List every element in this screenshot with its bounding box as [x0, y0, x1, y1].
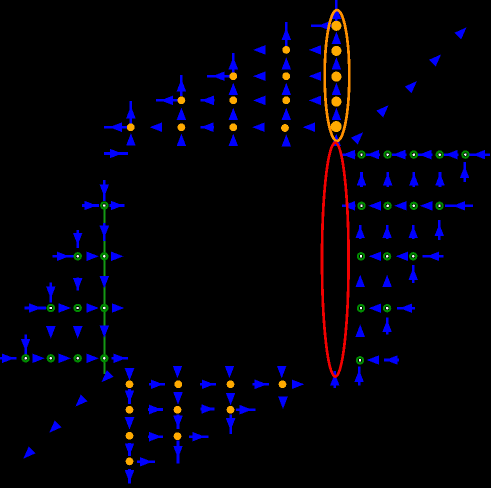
green dot (18,6)	[462, 152, 468, 158]
arrow up col13 between dots 1-2	[332, 32, 342, 44]
arrow right row12 c	[86, 303, 98, 313]
arrow left row3 node12	[309, 71, 321, 81]
arrow NE diag 2	[376, 105, 388, 117]
arrow right row16 a	[148, 405, 163, 415]
arrow NE diag 4	[429, 54, 441, 66]
arrow left row14 a	[367, 355, 379, 365]
arrow right row14 b	[32, 354, 44, 364]
arrow left row8 c	[394, 201, 406, 211]
arrow up row11 b	[382, 275, 392, 287]
green dot (15,8)	[385, 203, 391, 209]
orange dot (11,2)	[282, 46, 290, 54]
green dot (4,10)	[101, 253, 107, 259]
arrow up row7 b	[383, 172, 393, 187]
orange dot (7,16)	[174, 406, 182, 414]
arrow up row13 b long below dot(15,12)	[382, 317, 392, 334]
arrow down col11 below dot(11,15)	[278, 397, 288, 409]
arrow right row16 b	[201, 404, 215, 414]
arrow left row6 c	[392, 150, 406, 160]
arrow up col11 above dot(11,2)	[282, 22, 292, 46]
arrow up row13 a	[355, 325, 365, 337]
arrow left row5 node12	[303, 122, 315, 132]
arrow right row14 e	[112, 354, 128, 364]
arrow right row16 c long	[236, 405, 256, 415]
green dot (14,6)	[358, 152, 364, 158]
arrow up below dot(14,14)	[354, 367, 364, 386]
arrow down col9 between 15-16	[226, 393, 236, 405]
orange dot (11,5)	[281, 124, 289, 132]
arrow left row10 b	[396, 252, 408, 262]
orange dot (11,15)	[279, 380, 287, 388]
orange dot (9,4)	[229, 96, 237, 104]
arrow down col4 above dot(4,8)	[100, 180, 110, 201]
green dot (16,6)	[411, 152, 417, 158]
arrow left row8 b	[369, 201, 381, 211]
arrow left row5 node10	[252, 122, 264, 132]
arrow down col5 between 15-16	[125, 389, 135, 404]
arrow left row6 e	[444, 150, 458, 160]
arrow left row3 left of dot(9,3)	[207, 71, 230, 81]
orange dot (13,5) big	[331, 121, 342, 132]
arrow down col7 between 16-17	[173, 414, 183, 429]
arrow right row10 c	[111, 252, 123, 262]
arrow down col9 above dot(9,15)	[225, 366, 235, 378]
arrow down col4 below dot(4,8)	[100, 223, 110, 241]
arrow down col4 row11	[100, 276, 110, 288]
arrow NE diag 1	[351, 132, 363, 144]
arrow up col9 above dot(9,3)	[229, 53, 239, 73]
arrow left row5 node6	[150, 122, 162, 132]
arrow down col7 between 15-16	[173, 392, 183, 404]
arrow up row9 d long	[435, 220, 445, 240]
arrow down col2 above dot(2,12)	[46, 283, 56, 303]
green dot (3,12)	[75, 305, 81, 311]
arrow up col13 top	[332, 0, 342, 26]
arrow left row4 left of dot(7,4)	[156, 96, 178, 106]
arrow down col1 above dot(1,14)	[21, 334, 31, 355]
arrow left row5 left of dot(5,5)	[104, 122, 127, 132]
arrow down col7 above dot(7,15)	[173, 366, 183, 378]
arrow up col13 between dots 4-5	[332, 108, 342, 120]
green dot (4,8)	[101, 202, 107, 208]
arrow right row8 left of dot(4,8)	[82, 201, 99, 211]
arrow right row17 b long	[189, 432, 209, 442]
arrow right row12 d	[112, 303, 124, 313]
orange dot (11,3)	[282, 72, 290, 80]
orange dot (11,4)	[282, 96, 290, 104]
arrow SW diag 1	[102, 370, 114, 382]
arrow up col7 between dots	[177, 108, 187, 120]
arrow up row9 a	[355, 225, 365, 239]
arrow up col7 above dot(7,4)	[177, 75, 187, 96]
arrow down col4 row13	[100, 325, 110, 337]
arrow left row6 a	[342, 150, 356, 160]
green dot (16,10)	[410, 253, 416, 259]
arrow left row4 node8	[201, 96, 215, 106]
arrow left row8 a	[342, 201, 356, 211]
arrow right row12 b	[59, 303, 71, 313]
arrow up col11 between dots 4-5	[282, 108, 292, 120]
orange dot (5,5)	[127, 123, 135, 131]
orange dot (13,2) big	[331, 46, 341, 56]
arrow right row17 a	[148, 432, 163, 442]
arrow right row15 d	[292, 380, 304, 390]
green dot (15,10)	[384, 253, 390, 259]
arrow right row8 right of dot(4,8)	[109, 201, 124, 211]
green dot (2,14)	[48, 355, 54, 361]
arrow up col5 above dot(5,5)	[126, 101, 136, 124]
arrow down col9 below dot(9,16)	[226, 415, 236, 435]
arrow right row18 a	[137, 457, 155, 467]
arrow up col9 between dots 3-4	[229, 83, 239, 95]
arrow left row6 d	[418, 150, 432, 160]
arrow left row2 left of dot(11,2)	[253, 45, 265, 55]
orange dot (5,17)	[126, 432, 134, 440]
green dot (16,8)	[411, 203, 417, 209]
arrow left row12 a	[369, 303, 381, 313]
green dot (17,8)	[436, 203, 442, 209]
arrow left row6 f edge	[468, 150, 490, 160]
green dot (14,8)	[358, 203, 364, 209]
arrow up row9 b	[382, 225, 392, 239]
arrow left row4 node10	[253, 96, 265, 106]
orange dot (7,17)	[174, 432, 182, 440]
arrow up row7 c	[409, 172, 419, 187]
orange dot (13,1) big	[331, 21, 341, 31]
arrow right row14 c	[59, 354, 71, 364]
arrow left row3 node10	[253, 71, 265, 81]
arrow SW diag 4	[23, 447, 35, 459]
arrow up row9 c	[408, 225, 418, 239]
arrow left row5 node8	[201, 122, 214, 132]
orange dot (5,16)	[126, 406, 134, 414]
orange dot (5,15)	[126, 380, 134, 388]
green dot (17,6)	[437, 152, 443, 158]
arrow up col13 below dot(13,5)	[331, 134, 341, 146]
green dot (14,10)	[358, 253, 364, 259]
arrow left row12 b long	[397, 303, 415, 313]
arrow NE diag 5	[454, 27, 466, 39]
green dot (14,12)	[358, 305, 364, 311]
arrow up col7 below dot(7,5)	[177, 134, 187, 146]
arrow left row2 node12	[309, 45, 321, 55]
arrow left row8 e long	[445, 201, 473, 211]
orange dot (5,18)	[126, 458, 134, 466]
arrow up col9 between dots 4-5	[229, 108, 239, 120]
arrow right row15 c	[253, 380, 269, 390]
arrow down col5 between 16-17	[125, 417, 135, 429]
orange dot (7,15)	[174, 380, 182, 388]
green dot (4,14)	[101, 355, 107, 361]
arrow down col2 row13	[46, 326, 56, 338]
arrow up below red ellipse	[330, 371, 340, 388]
arrow left row1 left of dot(13,1)	[311, 21, 337, 31]
green dot (1,14)	[23, 355, 29, 361]
green dot (15,12)	[384, 305, 390, 311]
orange ellipse highlight around column 13 top	[325, 10, 350, 141]
arrow down col3 row11	[73, 278, 83, 291]
arrow up row7 a	[357, 172, 367, 187]
arrow down col3 above dot(3,10)	[73, 230, 83, 248]
green dot (15,6)	[385, 152, 391, 158]
arrow down col3 row13	[73, 326, 83, 338]
arrow up row11 c long below dot(16,10)	[408, 265, 418, 283]
orange dot (9,16)	[227, 406, 235, 414]
orange dot (7,4)	[178, 96, 186, 104]
arrow up col11 between dots 2-3	[282, 57, 292, 69]
red ellipse highlight around column 13 middle	[322, 143, 349, 377]
arrow right row12 a	[25, 303, 46, 313]
arrow up col11 between dots 3-4	[282, 83, 292, 95]
green dot (2,12)	[48, 305, 54, 311]
arrow down col7 below dot(7,17)	[173, 441, 183, 464]
green dot (4,12)	[101, 305, 107, 311]
arrow up row7 d	[435, 172, 445, 187]
arrow left row4 node12	[309, 96, 321, 106]
arrow right row10 b	[86, 252, 98, 262]
orange dot (13,3) big	[331, 72, 341, 82]
orange dot (9,3)	[229, 72, 237, 80]
arrow SW diag 3	[49, 421, 61, 433]
arrow up col9 below dot(9,5)	[229, 134, 239, 146]
arrow up col5 below dot(5,5)	[126, 133, 136, 145]
arrow right row10 a	[53, 252, 74, 262]
arrow up col11 below dot(11,5)	[282, 134, 292, 146]
arrow up col13 between dots 2-3	[332, 57, 342, 69]
orange dot (9,15)	[227, 380, 235, 388]
arrow right row15 a	[149, 380, 165, 390]
orange dot (9,5)	[229, 123, 237, 131]
arrow right row14 d	[86, 354, 98, 364]
arrow down col5 below dot(5,18)	[125, 469, 135, 484]
orange dot (13,4) big	[331, 97, 341, 107]
arrow up row7 e long	[460, 162, 470, 182]
arrow right row6 left block	[104, 149, 128, 159]
arrow right row14 a	[0, 354, 16, 364]
arrow down col5 above dot(5,15)	[125, 368, 135, 380]
arrow left row6 b	[366, 150, 380, 160]
arrow up col13 between dots 3-4	[332, 83, 342, 95]
green dot (14,14)	[357, 357, 363, 363]
green dot (3,14)	[75, 355, 81, 361]
arrow down col11 above dot(11,15)	[277, 366, 287, 378]
arrow right row15 b	[200, 380, 216, 390]
arrow SW diag 2	[75, 394, 87, 406]
nullcline green line x=104.3	[103, 206, 105, 375]
arrow down col5 between 17-18	[125, 443, 135, 456]
orange dot (7,5)	[178, 123, 186, 131]
arrow up row11 a	[355, 275, 365, 287]
arrow left row8 d	[420, 201, 432, 211]
arrow left row10 c long	[423, 252, 444, 262]
arrow left row10 a	[369, 252, 381, 262]
arrow NE diag 3	[405, 81, 417, 93]
green dot (3,10)	[75, 253, 81, 259]
arrow left row14 b	[384, 355, 399, 365]
